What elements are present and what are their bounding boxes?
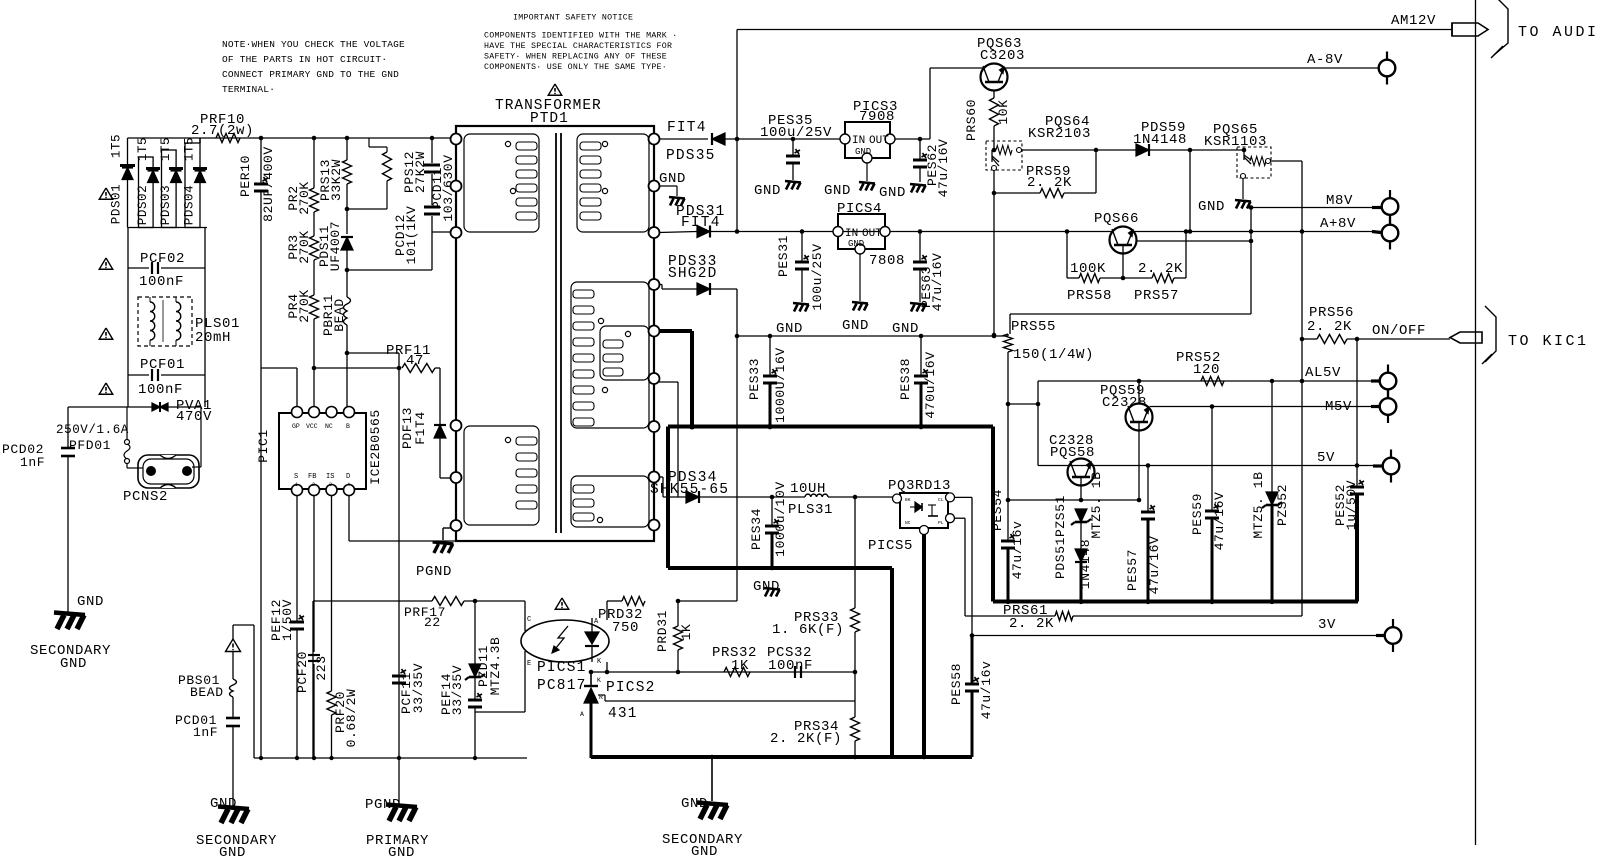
svg-text:IS: IS xyxy=(326,473,334,481)
diode PDS03 xyxy=(162,150,177,228)
svg-text:20mH: 20mH xyxy=(195,330,231,346)
svg-text:GND: GND xyxy=(691,844,718,860)
svg-text:PCNS2: PCNS2 xyxy=(123,489,168,505)
wire AM12V xyxy=(737,29,1452,31)
svg-text:PDS04: PDS04 xyxy=(183,185,197,226)
capacitor PES52 1u/50V xyxy=(1355,463,1360,468)
svg-text:PC817: PC817 xyxy=(537,678,587,694)
svg-text:1T5: 1T5 xyxy=(110,134,124,158)
wire ground bus upper xyxy=(668,425,993,429)
resistor PR2 270K xyxy=(312,136,317,141)
svg-text:NC: NC xyxy=(905,520,911,526)
svg-text:250V/1.6A: 250V/1.6A xyxy=(56,423,129,437)
svg-text:HAVE THE SPECIAL CHARACTERISTI: HAVE THE SPECIAL CHARACTERISTICS FOR xyxy=(484,42,672,51)
wire PQS66 base xyxy=(1122,245,1124,278)
wire 5V rail xyxy=(1038,465,1380,467)
svg-text:47: 47 xyxy=(406,353,424,369)
svg-text:B: B xyxy=(346,423,350,430)
svg-text:2. 2K(F): 2. 2K(F) xyxy=(770,731,842,747)
svg-text:PCF20: PCF20 xyxy=(295,651,310,693)
line filter PLS01 20mH xyxy=(138,297,192,346)
wire PRS55 to 5V reg xyxy=(1008,403,1038,405)
svg-text:1N4148: 1N4148 xyxy=(1133,132,1187,148)
svg-text:270K: 270K xyxy=(297,181,312,215)
ground PES62 xyxy=(910,184,926,186)
svg-text:PRS60: PRS60 xyxy=(964,99,979,141)
svg-text:GND: GND xyxy=(892,321,919,337)
svg-text:27K2W: 27K2W xyxy=(413,151,428,193)
svg-text:GND: GND xyxy=(60,656,87,672)
svg-text:1u/50V: 1u/50V xyxy=(1344,480,1359,530)
wire PQS64 emitter to +16V xyxy=(993,193,995,335)
wire PICS5 ground (thick) xyxy=(922,534,926,757)
warning triangle near PCF01 xyxy=(99,383,113,394)
svg-text:PES34: PES34 xyxy=(749,508,764,550)
svg-text:431: 431 xyxy=(608,706,638,722)
ground PES31 xyxy=(793,303,809,305)
svg-text:GND: GND xyxy=(77,594,104,610)
wire ON/OFF drop xyxy=(1356,339,1358,466)
wire top rail +310V xyxy=(128,137,457,139)
svg-text:2. 2K: 2. 2K xyxy=(1307,319,1352,335)
svg-text:PGND: PGND xyxy=(416,564,452,580)
svg-text:PDS01: PDS01 xyxy=(110,184,124,225)
wire left filter column xyxy=(127,227,129,407)
resistor PR3 270K xyxy=(313,212,315,236)
bracket TO KIC1 xyxy=(1485,306,1496,362)
capacitor PES62 47u/16V xyxy=(918,137,923,142)
wire feedback sense xyxy=(854,497,856,608)
capacitor PES54 47u/16v xyxy=(1001,540,1015,543)
svg-text:M5V: M5V xyxy=(1325,399,1352,415)
svg-text:PL: PL xyxy=(938,520,944,526)
svg-text:82UF/400V: 82UF/400V xyxy=(261,146,276,222)
svg-text:PIC1: PIC1 xyxy=(256,429,271,463)
svg-text:1. 6K(F): 1. 6K(F) xyxy=(772,622,844,638)
svg-text:PZS52: PZS52 xyxy=(1275,484,1290,526)
svg-text:100u/25V: 100u/25V xyxy=(810,243,825,310)
svg-text:FB: FB xyxy=(308,473,316,481)
wire PQS66 collector branch xyxy=(1136,240,1251,242)
svg-text:NC: NC xyxy=(325,423,333,430)
wire ground bus lower xyxy=(993,600,1358,604)
wire primary ground bus xyxy=(254,757,527,759)
capacitor PES57 47u/16V xyxy=(1146,463,1151,468)
wire riser to A+8V junction xyxy=(736,139,738,232)
wire opto anode xyxy=(606,601,608,620)
svg-text:470V: 470V xyxy=(176,409,212,425)
svg-text:0.68/2W: 0.68/2W xyxy=(344,689,359,748)
capacitor PCD11 with resistor PPS12 27K2W xyxy=(430,136,435,141)
resistor PRD32 750 xyxy=(622,597,645,606)
wire opto C pin xyxy=(524,601,526,631)
svg-text:3: 3 xyxy=(329,482,332,488)
svg-text:A: A xyxy=(580,711,584,718)
svg-text:2. 2K: 2. 2K xyxy=(1027,175,1072,191)
wire reference divider xyxy=(598,694,605,696)
svg-text:47u/16V: 47u/16V xyxy=(936,139,951,198)
varistor PVA1 470V xyxy=(152,403,160,411)
wire opto drive xyxy=(678,600,737,602)
svg-text:1T5: 1T5 xyxy=(159,137,173,161)
optocoupler PICS1 PC817 xyxy=(521,620,609,662)
svg-text:A+8V: A+8V xyxy=(1320,216,1356,232)
svg-text:223: 223 xyxy=(314,655,329,680)
svg-text:150(1/4W): 150(1/4W) xyxy=(1013,347,1094,363)
svg-text:33/35V: 33/35V xyxy=(411,663,426,713)
capacitor PEF12 1/50V xyxy=(296,495,298,622)
svg-text:PDS03: PDS03 xyxy=(159,185,173,226)
resistor PRF17 22 xyxy=(313,600,432,602)
svg-text:PES54: PES54 xyxy=(990,489,1005,531)
svg-text:PICS2: PICS2 xyxy=(606,680,656,696)
svg-text:3V: 3V xyxy=(1318,617,1336,633)
diode PDS04 xyxy=(185,143,200,228)
ground transformer GND pin xyxy=(659,185,677,187)
svg-text:PICS5: PICS5 xyxy=(868,538,913,554)
svg-text:C: C xyxy=(527,616,531,624)
svg-text:A-8V: A-8V xyxy=(1307,52,1343,68)
svg-text:GND: GND xyxy=(659,171,686,187)
wire opto cathode xyxy=(606,662,608,672)
svg-text:PFD01: PFD01 xyxy=(69,438,111,453)
svg-text:2.7(2w): 2.7(2w) xyxy=(191,123,254,139)
ground PGND at transformer xyxy=(443,527,451,529)
svg-text:PES33: PES33 xyxy=(747,358,762,400)
svg-text:1nF: 1nF xyxy=(20,455,45,470)
svg-text:120: 120 xyxy=(1193,362,1220,378)
connector 3V xyxy=(1392,619,1394,652)
node AM12V riser xyxy=(735,137,740,142)
capacitor PCF11 33/35V xyxy=(392,675,406,678)
svg-text:PES31: PES31 xyxy=(776,235,791,277)
transformer pins left xyxy=(451,134,462,145)
diode PDS01 xyxy=(127,138,129,228)
connector A-8V xyxy=(1386,52,1388,85)
svg-text:OUT: OUT xyxy=(869,135,889,147)
svg-text:PQS66: PQS66 xyxy=(1094,211,1139,227)
svg-text:GND: GND xyxy=(219,845,246,861)
wire secondary ground bus (thick) xyxy=(591,755,972,759)
svg-text:K: K xyxy=(597,677,601,684)
wire snubber return xyxy=(345,268,350,273)
connector AM12V arrow xyxy=(1452,23,1488,36)
svg-text:OF THE PARTS IN HOT CIRCUIT·: OF THE PARTS IN HOT CIRCUIT· xyxy=(222,54,387,65)
svg-text:47u/16V: 47u/16V xyxy=(1147,536,1162,595)
svg-text:1K: 1K xyxy=(679,624,694,641)
svg-text:PDS51PZS51: PDS51PZS51 xyxy=(1053,495,1068,579)
connector 5V xyxy=(1390,450,1392,483)
svg-text:MTZ4.3B: MTZ4.3B xyxy=(488,637,503,696)
diode PDF13 F1T4 xyxy=(434,425,446,438)
svg-text:100u/25V: 100u/25V xyxy=(760,125,832,141)
capacitor PES63 47u/16V xyxy=(918,229,923,234)
ground PES63 xyxy=(910,303,926,305)
svg-text:AM12V: AM12V xyxy=(1391,13,1436,29)
svg-text:NOTE·WHEN YOU CHECK THE VOLTAG: NOTE·WHEN YOU CHECK THE VOLTAGE xyxy=(222,39,405,50)
svg-text:PCF02: PCF02 xyxy=(140,251,185,267)
svg-text:1nF: 1nF xyxy=(193,725,218,740)
svg-text:CONNECT PRIMARY GND TO THE GND: CONNECT PRIMARY GND TO THE GND xyxy=(222,69,399,80)
svg-text:PDS35: PDS35 xyxy=(666,148,716,164)
ground primary (PGND) xyxy=(398,758,400,804)
svg-text:GND: GND xyxy=(848,239,864,249)
svg-text:470u/16V: 470u/16V xyxy=(923,351,938,418)
resistor PRS13 parallel leg xyxy=(368,138,370,147)
wire A+8V stub xyxy=(1372,232,1381,233)
ground PES35 xyxy=(785,181,801,183)
svg-text:COMPONENTS IDENTIFIED WITH THE: COMPONENTS IDENTIFIED WITH THE MARK · xyxy=(484,32,677,41)
svg-text:PRD31: PRD31 xyxy=(655,610,670,652)
wire ground bus from transformer xyxy=(659,329,692,333)
ferrite bead PBS01 xyxy=(232,652,234,679)
capacitor PES33 1000U/16V xyxy=(768,334,773,339)
warning triangle near PCF02 xyxy=(99,258,113,269)
resistor PRD31 1K xyxy=(677,601,679,626)
svg-text:KSR1103: KSR1103 xyxy=(1204,134,1267,150)
svg-text:E: E xyxy=(527,660,531,668)
transformer winding lower right xyxy=(571,476,649,527)
wire PDF13 branch xyxy=(397,366,402,371)
wire +16V riser xyxy=(711,288,737,290)
wire base bias line xyxy=(1008,499,1139,501)
wire GP pin xyxy=(296,368,298,407)
wire PRF11 feed xyxy=(347,352,399,354)
capacitor PES38 470u/16V xyxy=(919,334,924,339)
svg-text:IN: IN xyxy=(852,135,865,147)
wire PICS5 feedback xyxy=(954,517,965,519)
svg-text:GND: GND xyxy=(1198,199,1225,215)
svg-text:1/50V: 1/50V xyxy=(280,599,295,641)
connector ON/OFF arrow to KIC1 xyxy=(1450,332,1482,343)
svg-text:S: S xyxy=(294,473,298,481)
warning triangle near PLS01 xyxy=(99,328,113,339)
svg-text:270K: 270K xyxy=(297,230,312,264)
wire rectifier bus xyxy=(128,227,208,229)
svg-text:PQS58: PQS58 xyxy=(1050,445,1095,461)
capacitor PER10 82UF/400V xyxy=(259,136,264,141)
svg-text:GP: GP xyxy=(292,423,300,430)
svg-text:TO AUDI: TO AUDI xyxy=(1518,24,1599,41)
warning triangle bottom left xyxy=(226,639,241,652)
svg-text:C3203: C3203 xyxy=(980,48,1025,64)
connector AL5V xyxy=(1387,365,1389,398)
wire base drive xyxy=(1022,149,1136,151)
svg-text:F1T4: F1T4 xyxy=(413,411,428,445)
svg-text:1T5: 1T5 xyxy=(183,137,197,161)
wire D pin to transformer xyxy=(348,495,350,541)
wire AL5V rail xyxy=(1038,380,1380,382)
svg-text:2. 2K: 2. 2K xyxy=(1009,616,1054,632)
svg-text:GND: GND xyxy=(754,183,781,199)
svg-text:COMPONENTS· USE ONLY THE SAME: COMPONENTS· USE ONLY THE SAME TYPE· xyxy=(484,63,667,72)
ground PICS3 xyxy=(866,163,868,181)
svg-text:7808: 7808 xyxy=(869,253,905,269)
transformer winding upper right xyxy=(577,134,649,232)
svg-text:PLS31: PLS31 xyxy=(788,502,833,518)
svg-text:101(1KV: 101(1KV xyxy=(404,206,419,265)
svg-text:33K2W: 33K2W xyxy=(329,159,344,201)
svg-text:ICE2B0565: ICE2B0565 xyxy=(368,409,383,485)
svg-text:AL5V: AL5V xyxy=(1305,365,1341,381)
svg-text:KSR2103: KSR2103 xyxy=(1028,126,1091,142)
connector A+8V xyxy=(1389,217,1391,250)
wire ground bus drop xyxy=(890,568,894,757)
svg-text:BK: BK xyxy=(905,497,911,503)
connector PCNS2 xyxy=(200,407,202,467)
svg-text:47u/16V: 47u/16V xyxy=(930,253,945,312)
svg-text:PRS58: PRS58 xyxy=(1067,288,1112,304)
svg-text:1: 1 xyxy=(295,482,298,488)
wire bias return xyxy=(1010,313,1251,315)
shunt regulator PICS2 431 xyxy=(590,672,592,686)
svg-text:750: 750 xyxy=(612,620,639,636)
svg-text:100nF: 100nF xyxy=(139,274,184,290)
svg-text:IMPORTANT SAFETY NOTICE: IMPORTANT SAFETY NOTICE xyxy=(513,14,633,23)
svg-text:OUT: OUT xyxy=(862,228,882,240)
wire ground bus middle xyxy=(668,566,892,570)
svg-text:TERMINAL·: TERMINAL· xyxy=(222,84,275,95)
diode PDS11 UF4007 xyxy=(341,237,353,250)
svg-text:GND: GND xyxy=(824,183,851,199)
svg-text:PES58: PES58 xyxy=(949,663,964,705)
transformer winding secondary inner xyxy=(600,326,649,380)
wire PICS5 output xyxy=(954,496,972,498)
svg-text:PTD1: PTD1 xyxy=(530,111,569,127)
svg-text:SAFETY· WHEN REPLACING ANY OF: SAFETY· WHEN REPLACING ANY OF THESE xyxy=(484,53,667,62)
svg-text:PER10: PER10 xyxy=(238,155,253,197)
transformer winding primary aux xyxy=(464,426,539,525)
svg-text:CL: CL xyxy=(938,497,944,503)
svg-text:BEAD: BEAD xyxy=(190,685,224,700)
svg-text:5V: 5V xyxy=(1317,450,1335,466)
svg-text:1000U/16V: 1000U/16V xyxy=(773,347,788,423)
capacitor PCD12 101(1KV xyxy=(431,174,433,205)
svg-text:M8V: M8V xyxy=(1326,193,1353,209)
svg-text:MTZ5. 1B: MTZ5. 1B xyxy=(1089,471,1104,538)
zener PZS51 MTZ5.1B with diode PDS51 1N4148 xyxy=(1075,509,1087,522)
ground secondary (bottom center) xyxy=(711,757,713,801)
svg-text:PES57: PES57 xyxy=(1125,549,1140,591)
wire M5V rail xyxy=(1150,406,1380,408)
svg-text:PRS55: PRS55 xyxy=(1011,319,1056,335)
svg-text:GND: GND xyxy=(388,845,415,861)
wire right filter column xyxy=(204,227,206,407)
svg-text:VCC: VCC xyxy=(306,423,318,430)
capacitor PES31 100u/25V xyxy=(800,229,805,234)
resistor PRS59 2.2K xyxy=(993,170,995,193)
svg-text:GND: GND xyxy=(776,321,803,337)
wire PDS59 node riser xyxy=(1189,150,1191,232)
wire A+8V rail xyxy=(711,231,1380,233)
svg-text:33/35V: 33/35V xyxy=(450,665,465,715)
node B-pin junction xyxy=(345,351,350,356)
wire +16V rail xyxy=(737,335,1008,337)
resistor PR4 270K xyxy=(313,260,315,295)
ground PICS4 xyxy=(859,254,861,301)
svg-text:47u/16v: 47u/16v xyxy=(1010,521,1025,580)
svg-text:SHG2D: SHG2D xyxy=(668,266,718,282)
wire aux tap xyxy=(659,381,678,383)
svg-text:PCF01: PCF01 xyxy=(140,357,185,373)
svg-text:PDS02: PDS02 xyxy=(136,185,150,226)
svg-text:10K: 10K xyxy=(996,99,1011,124)
svg-text:FIT4: FIT4 xyxy=(667,120,707,136)
capacitor PCD02 1nF xyxy=(67,407,69,448)
svg-text:1T5: 1T5 xyxy=(136,137,150,161)
wire AL5V drop to PRS61 xyxy=(1301,339,1303,616)
bracket TO AUDI xyxy=(1494,0,1508,55)
wire A-8V rail xyxy=(929,68,931,139)
svg-text:MTZ5. 1B: MTZ5. 1B xyxy=(1251,471,1266,538)
svg-text:47u/16V: 47u/16V xyxy=(1212,492,1227,551)
transformer pins right xyxy=(649,134,660,145)
IC PIC1 ICE2B0565 xyxy=(279,413,366,489)
capacitor PES58 47u/16v xyxy=(971,636,974,685)
svg-text:PES59: PES59 xyxy=(1190,493,1205,535)
svg-text:PRS57: PRS57 xyxy=(1134,288,1179,304)
wire 7908 out xyxy=(895,138,930,140)
svg-text:4: 4 xyxy=(347,482,350,488)
svg-text:TO KIC1: TO KIC1 xyxy=(1508,333,1589,350)
wire opto E pin xyxy=(524,651,526,712)
svg-text:BEAD: BEAD xyxy=(332,298,347,332)
transformer winding primary upper xyxy=(464,134,539,232)
warning triangle near PDS01 xyxy=(99,188,113,199)
svg-text:1N4148: 1N4148 xyxy=(1078,539,1093,589)
wire ground bus riser xyxy=(991,427,995,602)
wire 3V line xyxy=(970,633,975,638)
svg-text:100nF: 100nF xyxy=(138,382,183,398)
svg-text:22: 22 xyxy=(424,615,441,630)
wire PQS65 collector xyxy=(1271,160,1302,162)
zener PZS52 MTZ5.1B xyxy=(1270,379,1275,384)
wire 12V secondary output xyxy=(659,138,708,140)
svg-text:270K: 270K xyxy=(297,289,312,323)
svg-text:D: D xyxy=(346,473,350,481)
diode PDS02 xyxy=(139,157,154,228)
wire AC line xyxy=(68,406,201,408)
svg-text:GND: GND xyxy=(879,185,906,201)
capacitor PCF20 223 xyxy=(313,495,315,652)
transformer winding secondary main xyxy=(571,282,649,428)
svg-text:100nF: 100nF xyxy=(768,658,813,674)
capacitor PES34 1000u/10V xyxy=(771,497,773,526)
capacitor PES59 47u/16V xyxy=(1210,404,1215,409)
svg-text:1K: 1K xyxy=(731,658,749,674)
svg-text:ON/OFF: ON/OFF xyxy=(1372,323,1426,339)
wire PGND column xyxy=(398,368,400,758)
svg-text:PQ3RD13: PQ3RD13 xyxy=(888,478,951,494)
ferrite bead PBR11 xyxy=(346,270,348,297)
svg-text:PICS1: PICS1 xyxy=(537,660,587,676)
wire VCC node to PRF11 xyxy=(312,366,317,371)
svg-text:1000u/10V: 1000u/10V xyxy=(773,481,788,557)
svg-text:GND: GND xyxy=(842,318,869,334)
connector M5V xyxy=(1387,390,1389,423)
resistor PRS60 10K xyxy=(993,90,995,98)
svg-text:PES38: PES38 xyxy=(898,358,913,400)
resistor PRS13 33K2W xyxy=(345,136,350,141)
svg-text:47u/16v: 47u/16v xyxy=(979,661,994,720)
svg-text:GND: GND xyxy=(855,147,871,157)
svg-text:UF4007: UF4007 xyxy=(328,221,343,271)
wire to safety mark xyxy=(232,625,234,639)
svg-text:2: 2 xyxy=(312,482,315,488)
wire board edge xyxy=(1475,0,1477,845)
capacitor PCD01 1nF xyxy=(232,697,234,718)
zener PZD11 MTZ4.3B with cap PEF14 xyxy=(473,599,478,604)
